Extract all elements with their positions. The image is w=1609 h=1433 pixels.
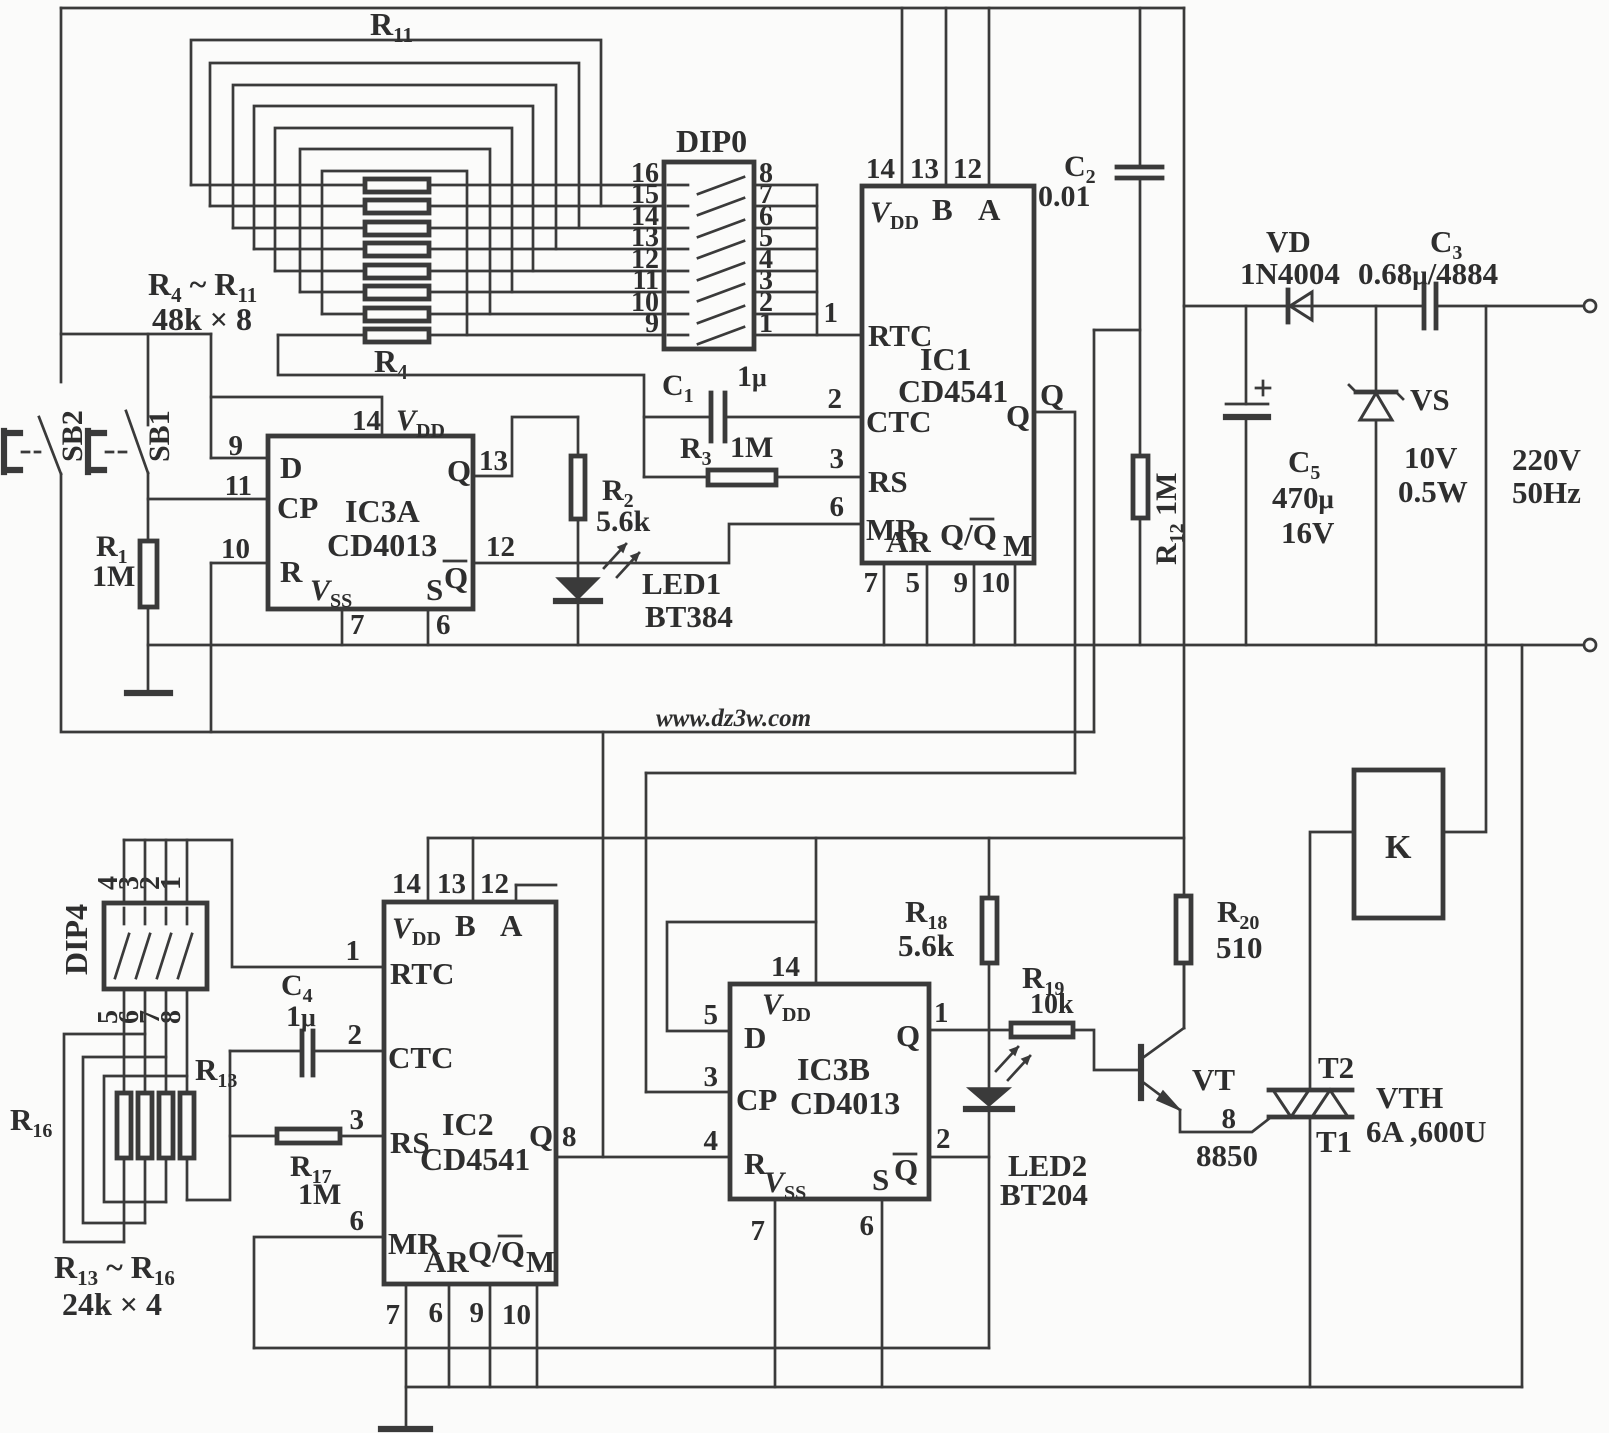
svg-text:DD: DD (412, 928, 441, 950)
wire: CP feed vertical (645, 773, 648, 1092)
wire: loop joining R7 left to DIP0 pin 11 / R6 right (275, 128, 512, 292)
DIP4 switch 1 (123, 908, 126, 924)
svg-text:IC3A: IC3A (345, 493, 420, 529)
wire: SB2 lower / bottom-left corner / reset line A to C2 node (61, 474, 1094, 732)
svg-text:Q: Q (447, 453, 471, 488)
svg-text:M: M (526, 1244, 555, 1279)
svg-text:DD: DD (416, 420, 445, 442)
svg-text:1N4004: 1N4004 (1240, 256, 1340, 291)
wire: R5 leads (322, 313, 664, 316)
wire: SB1 top lead (147, 334, 150, 425)
svg-text:Q: Q (529, 1118, 553, 1153)
svg-text:6: 6 (436, 609, 451, 641)
svg-text:IC1: IC1 (920, 341, 972, 377)
IC2 CD4541 (384, 902, 556, 1284)
wire: K relay to supply line (1443, 306, 1486, 832)
wire: IC1 pins 14,13,12 to VDD rail (902, 8, 989, 186)
wire: ground line up to rail (1521, 645, 1524, 1387)
wire: MR line L1 (254, 1347, 989, 1350)
wire: SB net horizontal (border to D node) (61, 333, 211, 336)
svg-text:12: 12 (480, 868, 509, 900)
svg-text:4: 4 (704, 1125, 719, 1157)
wire: line B (IC1 Q to IC3B CP) (646, 772, 1075, 775)
resistor R19 10k (1011, 1023, 1073, 1037)
wire: IC3B CP pin 3 line (646, 1091, 730, 1094)
wire: loop joining R6 left to DIP0 pin 10 / R5 right (300, 149, 490, 314)
svg-text:8: 8 (1222, 1103, 1237, 1135)
wire: IC3B Qbar pin 2 line (929, 1156, 989, 1159)
svg-text:CD4013: CD4013 (790, 1085, 900, 1121)
svg-text:Q: Q (1006, 398, 1030, 433)
pushbutton SB2 (4, 431, 20, 472)
wire: loop R15 bottom to pin7 (83, 1057, 166, 1223)
resistor R17 1M (230, 1135, 384, 1138)
resistor R6 48k (365, 286, 429, 299)
resistor R5 48k (365, 308, 429, 321)
wire: IC2 pin 14 stub to VDD line (427, 838, 430, 902)
LED2 arrows (996, 1047, 1018, 1071)
svg-text:6: 6 (350, 1205, 365, 1237)
resistor R10 48k (365, 200, 429, 213)
wire: R8 leads (254, 248, 664, 251)
svg-text:DIP0: DIP0 (676, 123, 747, 159)
svg-text:1μ: 1μ (737, 360, 767, 393)
svg-text:12: 12 (486, 531, 515, 563)
svg-text:3: 3 (704, 1061, 719, 1093)
svg-text:11: 11 (225, 470, 252, 502)
svg-text:12: 12 (953, 153, 982, 185)
svg-text:3: 3 (350, 1104, 365, 1136)
wire: IC3B pin 14 stub and D loop (815, 838, 818, 984)
resistor R9 48k (365, 222, 429, 235)
svg-text:M: M (1003, 528, 1032, 563)
IC3A CD4013 (268, 436, 473, 609)
svg-text:2: 2 (828, 383, 843, 415)
wire: loop joining R9 left to DIP0 pin 13 / R8 right (233, 85, 556, 249)
resistor R4 48k (365, 329, 429, 342)
svg-text:S: S (872, 1162, 889, 1197)
svg-text:C1: C1 (662, 369, 694, 407)
svg-text:RTC: RTC (390, 956, 454, 991)
IC3B CD4013 (730, 984, 929, 1199)
svg-text:1: 1 (156, 876, 187, 890)
svg-text:9: 9 (470, 1297, 485, 1329)
svg-text:DD: DD (890, 212, 919, 234)
wire: R11 leads (191, 184, 664, 187)
svg-text:8850: 8850 (1196, 1138, 1258, 1173)
svg-text:10: 10 (981, 567, 1010, 599)
wire: ground rail (148, 644, 1583, 647)
svg-text:T2: T2 (1318, 1050, 1354, 1085)
wire: DIP4 bottom pins down to R13-R16 chain (124, 989, 187, 1093)
DIP0 switch 5 (668, 270, 688, 273)
wire: SB/D vertical (210, 334, 213, 458)
svg-text:3: 3 (830, 443, 845, 475)
svg-text:DD: DD (782, 1004, 811, 1026)
DIP0 switch 6 (668, 291, 688, 294)
svg-text:BT384: BT384 (645, 599, 733, 634)
wire: R6 leads (300, 291, 664, 294)
svg-text:10: 10 (502, 1299, 531, 1331)
svg-text:VT: VT (1192, 1062, 1235, 1097)
svg-text:T1: T1 (1316, 1124, 1352, 1159)
svg-text:Q: Q (1040, 377, 1064, 412)
DIP4 switch 4 (186, 908, 189, 924)
svg-text:6: 6 (860, 1210, 875, 1242)
svg-text:7: 7 (864, 567, 879, 599)
svg-text:1: 1 (824, 297, 839, 329)
wire: K left to triac T2 (1310, 832, 1354, 1090)
svg-text:S: S (426, 572, 443, 607)
svg-text:13: 13 (910, 153, 939, 185)
wire: IC2 pins 6,9,10 to ground line (449, 1284, 537, 1387)
wire: loop joining R11 left to DIP0 pin 15 / R10 right (191, 40, 601, 206)
resistor R15 24k (138, 1093, 152, 1158)
svg-text:R12 1M: R12 1M (1150, 473, 1188, 566)
svg-text:R16: R16 (10, 1102, 52, 1142)
resistor R20 510 (1176, 896, 1191, 963)
ground symbol (R1) (127, 690, 170, 696)
wire: R pin 10 line (211, 562, 268, 565)
diode VD 1N4004 (1290, 292, 1312, 320)
svg-text:CD4013: CD4013 (327, 527, 437, 563)
wire: IC2 Q pin 8 to IC3B R pin 4 (556, 1156, 730, 1159)
wire: R1 bottom to ground (147, 607, 150, 693)
wire: DIP0 right pins common bus to RTC (754, 185, 817, 335)
svg-text:1μ: 1μ (286, 1000, 316, 1033)
transistor VT 8850 (1138, 1047, 1144, 1098)
svg-text:1: 1 (346, 935, 361, 967)
svg-text:BT204: BT204 (1000, 1177, 1088, 1212)
svg-text:5: 5 (906, 567, 921, 599)
svg-text:7: 7 (350, 609, 365, 641)
svg-text:R20: R20 (1217, 894, 1259, 934)
svg-text:VTH: VTH (1376, 1080, 1443, 1115)
resistor R1 1M (140, 541, 157, 607)
LED2 BT204 (968, 1088, 1010, 1106)
triac VTH 6A,600U (1269, 1090, 1352, 1117)
resistor R2 5.6k (571, 456, 585, 519)
svg-text:9: 9 (645, 308, 659, 339)
zener diode VS 10V 0.5W (1375, 306, 1378, 392)
LED1 BT384 (557, 578, 599, 599)
svg-text:0.68μ/4884: 0.68μ/4884 (1358, 256, 1498, 291)
svg-text:C5: C5 (1288, 444, 1320, 484)
wire: IC3B pins 7,6 to ground line (775, 1199, 882, 1387)
svg-text:B: B (932, 192, 953, 227)
capacitor C3 0.68u/4884 (1424, 284, 1436, 328)
terminal: 220V upper (1584, 300, 1596, 312)
wire: Q pin13 to R2 top (473, 417, 578, 476)
resistor R16 24k (117, 1093, 131, 1158)
capacitor C4 1u (230, 1050, 384, 1053)
svg-text:220V: 220V (1512, 442, 1582, 477)
svg-text:14: 14 (866, 153, 895, 185)
wire: loop R16 bottom to pin6 (64, 1034, 145, 1242)
svg-text:48k × 8: 48k × 8 (152, 301, 252, 337)
svg-text:2: 2 (936, 1123, 951, 1155)
svg-text:B: B (455, 908, 476, 943)
svg-text:Q: Q (444, 560, 468, 595)
wire: IC2 pin 12 stub (515, 885, 518, 902)
svg-text:510: 510 (1216, 930, 1263, 965)
svg-text:14: 14 (771, 951, 800, 983)
capacitor C5 470u 16V electrolytic (1245, 306, 1248, 404)
svg-text:5: 5 (704, 999, 719, 1031)
svg-text:SB2: SB2 (56, 410, 89, 462)
svg-text:0.01: 0.01 (1038, 180, 1091, 213)
wire: VDD distribution line (428, 837, 1184, 840)
wire: supply vertical from top border (1183, 8, 1186, 306)
DIP0 switch 7 (668, 313, 688, 316)
wire: R13 bottom to C4/R17 node (187, 1051, 230, 1200)
svg-text:13: 13 (479, 445, 508, 477)
svg-text:CD4541: CD4541 (420, 1141, 530, 1177)
capacitor C2 0.01 (1139, 8, 1142, 167)
wire: 220V top line (1184, 305, 1583, 308)
terminal: 220V lower (1584, 639, 1596, 651)
DIP switch DIP0 (664, 162, 754, 349)
wire: DIP4 pins 4-1 common bus to IC2 RTC (124, 840, 187, 903)
resistor R13 24k (180, 1093, 194, 1158)
svg-text:SB1: SB1 (143, 410, 176, 462)
svg-text:6A ,600U: 6A ,600U (1366, 1114, 1487, 1149)
DIP0 switch 3 (668, 227, 688, 230)
svg-text:14: 14 (352, 405, 381, 437)
svg-text:50Hz: 50Hz (1512, 475, 1581, 510)
wire: loop joining R5 left to DIP0 pin 9 / R4 right (322, 171, 467, 335)
svg-text:5.6k: 5.6k (898, 928, 955, 963)
resistor R3 1M (644, 476, 862, 479)
svg-text:A: A (500, 908, 523, 943)
wire: R10 leads (210, 205, 664, 208)
wire: resistor bottom leads (124, 1158, 187, 1242)
wire: R pin 10 vertical to bottom-left corner (210, 563, 213, 732)
wire: R4 leads (278, 334, 664, 337)
svg-text:14: 14 (392, 868, 421, 900)
svg-text:D: D (280, 450, 302, 485)
wire: top border VDD rail (61, 7, 1184, 10)
svg-text:R: R (280, 554, 303, 589)
svg-text:VS: VS (1410, 382, 1450, 417)
svg-text:0.5W: 0.5W (1398, 474, 1468, 509)
svg-text:R4: R4 (374, 343, 408, 384)
svg-text:470μ: 470μ (1272, 480, 1334, 515)
wire: IC1 bottom pins 7,5,9,10 to ground rail (884, 563, 1015, 645)
DIP0 switch 2 (668, 205, 688, 208)
wire: IC3A VSS pin 7 stub (341, 609, 344, 645)
DIP0 switch 1 (668, 184, 688, 187)
svg-text:1M: 1M (730, 431, 773, 464)
svg-text:R3: R3 (680, 432, 712, 470)
svg-text:IC2: IC2 (442, 1106, 494, 1142)
svg-text:13: 13 (437, 868, 466, 900)
wire: IC3A VDD pin 14 feed (211, 397, 382, 436)
resistor R18 5.6k (988, 838, 991, 898)
svg-text:CP: CP (277, 490, 318, 525)
svg-text:D: D (744, 1020, 766, 1055)
wire: IC3A S pin 6 stub (427, 609, 430, 645)
svg-text:AR: AR (424, 1244, 469, 1279)
svg-text:1M: 1M (92, 560, 135, 593)
svg-text:CTC: CTC (388, 1040, 453, 1075)
svg-text:9: 9 (954, 567, 969, 599)
svg-text:RS: RS (868, 464, 908, 499)
wire: bottom ground line L2 (406, 1386, 1522, 1389)
svg-text:2: 2 (348, 1019, 363, 1051)
svg-text:10V: 10V (1404, 440, 1458, 475)
wire: supply down to VDD line and R20 (1183, 306, 1186, 896)
ground symbol (IC2) (381, 1426, 430, 1432)
capacitor C1 1u (644, 416, 862, 419)
svg-text:CD4541: CD4541 (898, 373, 1008, 409)
wire: R4 bottom tap to C1/R3 node (278, 335, 644, 477)
svg-text:Q: Q (894, 1152, 918, 1187)
svg-text:Q: Q (896, 1018, 920, 1053)
svg-text:Q/Q: Q/Q (468, 1234, 525, 1269)
svg-text:DIP4: DIP4 (58, 904, 94, 975)
wire: IC2 pin 7 to ground (405, 1284, 408, 1429)
wire: R7 leads (275, 270, 664, 273)
DIP0 switch 8 (668, 334, 688, 337)
svg-text:10k: 10k (1030, 989, 1074, 1020)
svg-text:CP: CP (736, 1082, 777, 1117)
svg-text:AR: AR (886, 524, 931, 559)
svg-text:CTC: CTC (866, 404, 931, 439)
svg-text:8: 8 (156, 1010, 187, 1024)
wire: R18/LED2 string down to MR line (988, 963, 991, 1348)
wire: loop R14 bottom to pin8 (104, 1076, 187, 1202)
svg-text:24k × 4: 24k × 4 (62, 1286, 162, 1322)
svg-text:VD: VD (1266, 224, 1311, 259)
wire: Qbar pin12 line to IC1 MR (473, 524, 862, 563)
svg-text:5.6k: 5.6k (596, 505, 651, 538)
svg-text:7: 7 (751, 1215, 766, 1247)
relay K (1354, 770, 1443, 918)
svg-text:www.dz3w.com: www.dz3w.com (656, 705, 811, 732)
svg-text:8: 8 (562, 1121, 577, 1153)
wire: IC1 Q output down to line B (1034, 412, 1075, 773)
svg-text:SS: SS (784, 1182, 806, 1204)
pushbutton SB1 (88, 431, 104, 472)
LED1 arrows (604, 544, 626, 568)
svg-text:K: K (1385, 829, 1412, 866)
wire: left border upper (to SB2) (60, 8, 63, 382)
wire: reset drop to IC3B R / IC2 Q (602, 732, 605, 1157)
wire: D pin 9 line (211, 457, 268, 460)
wire: loop joining R10 left to DIP0 pin 14 / R9 right (210, 63, 579, 228)
svg-text:6: 6 (429, 1297, 444, 1329)
DIP4 switch 3 (165, 908, 168, 924)
svg-text:LED1: LED1 (642, 566, 721, 601)
svg-text:16V: 16V (1281, 515, 1335, 550)
wire: CP pin 11 line (148, 498, 268, 501)
wire: IC2 pin 13 stub to VDD line (472, 838, 475, 902)
wire: IC2 MR loop (254, 1237, 384, 1348)
svg-text:9: 9 (229, 430, 244, 462)
svg-text:10: 10 (221, 533, 250, 565)
svg-text:1M: 1M (298, 1178, 341, 1211)
svg-text:IC3B: IC3B (797, 1051, 870, 1087)
DIP4 switch 2 (144, 908, 147, 924)
IC1 CD4541 (862, 186, 1034, 563)
DIP0 switch 4 (668, 248, 688, 251)
wire: R19 to VT base (1073, 1030, 1141, 1070)
wire: loop joining R8 left to DIP0 pin 12 / R7 right (254, 106, 533, 271)
resistor R11 48k (365, 179, 429, 192)
svg-text:1: 1 (934, 997, 949, 1029)
DIP switch DIP4 (104, 903, 207, 989)
resistor R14 24k (159, 1093, 173, 1158)
svg-text:6: 6 (830, 491, 845, 523)
resistor R7 48k (365, 265, 429, 278)
wire: triac T1 down to ground line (1309, 1117, 1312, 1387)
wire: IC3B Q pin1 to R19 (929, 1029, 1011, 1032)
resistor R12 1M (1133, 456, 1148, 518)
wire: SB1 bottom lead to R1 (147, 473, 150, 541)
svg-text:7: 7 (386, 1299, 401, 1331)
svg-text:Q/Q: Q/Q (940, 517, 997, 552)
wire: R9 leads (233, 227, 664, 230)
resistor R8 48k (365, 243, 429, 256)
svg-text:R13 ~ R16: R13 ~ R16 (54, 1249, 175, 1290)
svg-text:R11: R11 (370, 6, 413, 47)
wire: C2/R12 node to line A (1094, 329, 1140, 332)
svg-text:A: A (978, 192, 1001, 227)
